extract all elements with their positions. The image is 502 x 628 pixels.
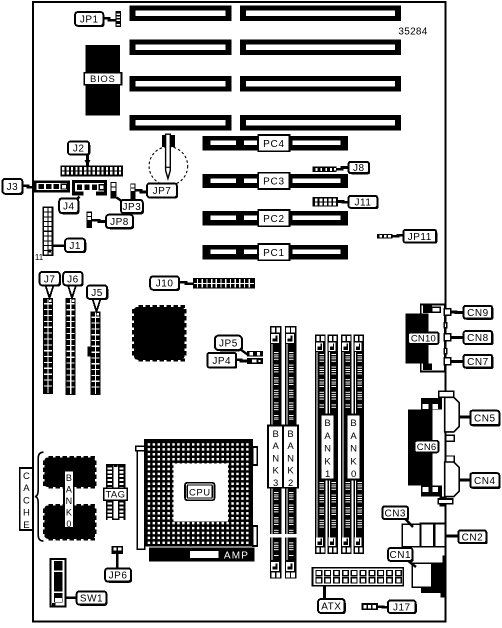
wire JP5 <box>242 350 248 354</box>
port CN8 <box>444 334 450 341</box>
svg-text:1: 1 <box>325 469 330 480</box>
connector J6 <box>66 298 76 395</box>
port CN9 <box>444 309 450 316</box>
connector CN1 block <box>421 556 446 598</box>
svg-text:K: K <box>273 466 280 477</box>
svg-text:JP11: JP11 <box>408 232 432 243</box>
label J10 <box>151 278 180 292</box>
label J1 <box>66 240 86 253</box>
ISA slot 2 left segment <box>130 40 232 56</box>
label JP1 <box>76 13 104 27</box>
wire JP7 <box>135 190 147 192</box>
svg-text:AMP: AMP <box>224 551 249 562</box>
svg-text:J10: J10 <box>156 279 174 290</box>
label BANK0 (cache) <box>64 471 74 528</box>
svg-text:A: A <box>324 431 331 442</box>
port notch 4 <box>446 456 455 462</box>
svg-text:JP5: JP5 <box>219 338 238 349</box>
svg-text:ATX: ATX <box>321 602 341 613</box>
jumper JP8 <box>87 212 92 228</box>
svg-text:H: H <box>23 508 30 519</box>
CPU socket clip top <box>253 447 257 465</box>
jumper JP6 <box>112 546 124 554</box>
svg-text:B: B <box>66 473 72 483</box>
svg-text:A: A <box>66 485 72 495</box>
PCI slot PC4 <box>202 136 348 150</box>
svg-text:CN4: CN4 <box>474 476 496 487</box>
label PC3 <box>258 173 289 189</box>
wire CN5 <box>459 416 470 419</box>
svg-text:A: A <box>23 483 30 494</box>
label PC4 <box>258 135 289 151</box>
ISA slot 3 right segment <box>240 76 401 92</box>
svg-text:JP4: JP4 <box>212 356 231 367</box>
svg-text:CN8: CN8 <box>467 333 489 344</box>
header J1 <box>43 207 52 255</box>
svg-text:SW1: SW1 <box>80 594 103 605</box>
svg-text:K: K <box>324 456 331 467</box>
connector CN6 assembly <box>439 391 454 397</box>
svg-text:CN9: CN9 <box>467 308 489 319</box>
label CN4 <box>472 474 501 489</box>
port notch 2 <box>444 349 447 354</box>
svg-text:N: N <box>324 444 331 455</box>
connector J5 tab <box>87 346 90 356</box>
battery B1 <box>149 147 188 186</box>
wire CN9 <box>451 311 464 315</box>
label JP8 <box>107 216 134 229</box>
svg-text:C: C <box>23 471 30 482</box>
jumper JP7 <box>130 184 135 199</box>
svg-text:CN3: CN3 <box>384 508 406 519</box>
svg-text:B: B <box>324 418 330 429</box>
wire J7 <box>46 285 54 298</box>
svg-text:N: N <box>66 496 73 506</box>
svg-text:N: N <box>272 453 279 464</box>
connector J4 <box>72 180 107 195</box>
svg-text:A: A <box>287 441 294 452</box>
label PC1 <box>258 244 289 260</box>
CPU socket <box>144 439 253 547</box>
brace <box>35 452 44 541</box>
port notch 3 <box>446 435 455 441</box>
connector J3 <box>34 180 70 192</box>
wire J6 <box>68 285 76 298</box>
label CN6 <box>415 441 439 453</box>
SIMM socket BANK0 (pair) <box>341 335 352 555</box>
label CN3 <box>384 508 409 521</box>
label CN7 <box>465 356 494 369</box>
label SW1 <box>78 593 108 606</box>
svg-text:11: 11 <box>35 253 44 262</box>
header J8 <box>313 167 337 172</box>
CPU socket lever <box>137 450 145 550</box>
wire JP3 <box>117 198 124 203</box>
jumper JP1 <box>115 11 121 27</box>
wire CN8 <box>451 336 464 339</box>
wire CN1 <box>407 560 416 567</box>
label BANK0 <box>347 414 361 479</box>
svg-text:JP3: JP3 <box>123 202 142 213</box>
svg-text:J8: J8 <box>353 163 365 174</box>
svg-text:B: B <box>350 418 356 429</box>
svg-text:E: E <box>23 520 29 531</box>
svg-text:PC1: PC1 <box>263 248 285 259</box>
PCI slot PC2 <box>202 211 348 225</box>
label J3 <box>4 180 24 195</box>
svg-text:CN7: CN7 <box>467 357 489 368</box>
svg-text:CN1: CN1 <box>390 550 412 561</box>
label CPU <box>185 483 214 500</box>
label CN10 <box>408 332 438 344</box>
svg-text:3: 3 <box>273 478 278 489</box>
label BANK2 <box>283 426 298 488</box>
port notch 1 <box>444 323 447 328</box>
svg-text:35284: 35284 <box>398 27 427 38</box>
svg-text:CN5: CN5 <box>474 414 496 425</box>
SIMM socket BANK3 <box>270 326 282 579</box>
wire J8 <box>337 168 349 170</box>
cache chip 1 <box>49 456 53 459</box>
svg-text:N: N <box>350 444 357 455</box>
connector J5 <box>90 312 100 395</box>
label JP7 <box>148 185 178 199</box>
svg-text:K: K <box>287 466 294 477</box>
label JP5 <box>216 337 243 352</box>
wire JP11 <box>392 235 403 236</box>
svg-text:PC3: PC3 <box>263 177 285 188</box>
label BANK3 <box>268 426 283 488</box>
svg-text:BIOS: BIOS <box>90 74 116 85</box>
connector CN10 assembly <box>421 305 445 372</box>
label J5 <box>88 287 108 301</box>
svg-text:PC2: PC2 <box>263 214 285 225</box>
cache chip 2 <box>49 504 53 507</box>
wire J4 <box>71 197 80 207</box>
label CN8 <box>465 332 494 345</box>
label JP3 <box>122 201 144 214</box>
label J2 <box>69 143 90 156</box>
svg-text:JP6: JP6 <box>109 571 128 582</box>
label JP6 <box>106 570 132 583</box>
label J8 <box>350 163 370 174</box>
connector J7 <box>43 298 53 394</box>
label J7 <box>41 273 61 287</box>
wire J11 <box>338 200 349 203</box>
svg-text:K: K <box>350 456 357 467</box>
wire CN2 <box>446 535 459 538</box>
jumper JP11 <box>377 234 392 239</box>
svg-text:0: 0 <box>351 469 356 480</box>
wire CN4 <box>459 479 470 482</box>
svg-text:CN6: CN6 <box>417 442 437 453</box>
svg-text:J17: J17 <box>393 602 411 613</box>
wire CN7 <box>451 360 464 363</box>
label J17 <box>389 602 417 615</box>
connector ATX <box>313 568 404 586</box>
label CACHE <box>20 468 33 530</box>
svg-text:A: A <box>273 441 280 452</box>
ISA slot 1 left segment <box>130 6 232 22</box>
svg-text:A: A <box>350 431 357 442</box>
chip TAG <box>106 464 126 520</box>
svg-text:J2: J2 <box>73 144 85 155</box>
label CN9 <box>465 307 494 320</box>
svg-text:CN10: CN10 <box>411 334 436 345</box>
wire CN3 <box>404 518 413 528</box>
wire J2 <box>86 152 89 166</box>
ISA slot 1 right segment <box>240 6 401 22</box>
svg-text:J6: J6 <box>67 274 79 285</box>
svg-text:JP1: JP1 <box>80 15 99 26</box>
label J6 <box>64 273 83 287</box>
svg-text:N: N <box>287 453 294 464</box>
SIMM socket BANK1 (pair) <box>315 335 326 555</box>
wire J3 <box>22 186 33 188</box>
wire JP6 <box>116 554 119 569</box>
wire ATX <box>323 586 326 599</box>
connector AMP <box>149 548 254 562</box>
ISA slot 4 left segment <box>130 115 232 131</box>
svg-text:CPU: CPU <box>189 487 211 498</box>
svg-text:J3: J3 <box>7 182 19 193</box>
svg-text:C: C <box>23 495 30 506</box>
CPU socket clip bottom <box>253 526 257 546</box>
port CN4 <box>445 462 460 497</box>
svg-text:J4: J4 <box>63 201 75 212</box>
wire J1 <box>53 244 66 246</box>
ISA slot 2 right segment <box>240 40 401 56</box>
svg-text:B: B <box>287 429 293 440</box>
label JP11 <box>405 231 438 244</box>
header J2 <box>60 166 122 177</box>
wire JP1 <box>103 18 115 20</box>
label BIOS <box>84 73 121 85</box>
svg-text:J5: J5 <box>91 288 103 299</box>
connector CN3 block <box>402 524 420 547</box>
SIMM socket BANK2 <box>285 326 297 579</box>
ISA slot 4 right segment <box>240 115 401 131</box>
jumper J17 <box>361 603 378 610</box>
svg-text:J7: J7 <box>44 274 56 285</box>
label J11 <box>350 197 379 209</box>
svg-text:J11: J11 <box>355 197 372 208</box>
wire J5 <box>93 299 101 312</box>
label J4 <box>60 200 79 215</box>
svg-text:PC4: PC4 <box>263 139 285 150</box>
svg-text:JP8: JP8 <box>110 217 129 228</box>
jumper JP3 <box>111 182 117 199</box>
svg-text:K: K <box>66 508 72 518</box>
svg-text:B: B <box>273 429 279 440</box>
svg-text:0: 0 <box>66 519 71 529</box>
chipset U1 <box>132 305 187 361</box>
svg-text:J1: J1 <box>69 241 81 252</box>
label CN1 <box>389 549 413 562</box>
chip BIOS <box>86 45 120 115</box>
switch SW1 <box>51 559 66 607</box>
label JP4 <box>209 354 238 369</box>
svg-text:2: 2 <box>288 478 293 489</box>
header J10 <box>193 278 255 289</box>
header J11 <box>313 197 338 207</box>
label CN5 <box>472 412 501 427</box>
ISA slot 3 left segment <box>130 76 232 92</box>
svg-text:JP7: JP7 <box>153 186 172 197</box>
jumper JP5 <box>247 351 263 357</box>
label PC2 <box>258 210 289 226</box>
PCI slot PC1 <box>202 245 348 259</box>
PCI slot PC3 <box>202 174 348 188</box>
svg-text:TAG: TAG <box>106 490 126 501</box>
wire J17 <box>378 605 388 608</box>
jumper JP4 <box>247 358 263 364</box>
label BANK1 <box>321 414 335 479</box>
wire J10 <box>179 282 193 284</box>
label CN2 <box>460 532 488 545</box>
wire JP8 <box>92 220 106 221</box>
label ATX <box>319 600 346 614</box>
label TAG <box>104 488 128 500</box>
svg-text:CN2: CN2 <box>462 532 484 543</box>
wire JP4 <box>236 360 247 361</box>
port CN5 <box>445 397 460 432</box>
port CN7 <box>444 358 450 365</box>
wire SW1 <box>66 596 77 599</box>
